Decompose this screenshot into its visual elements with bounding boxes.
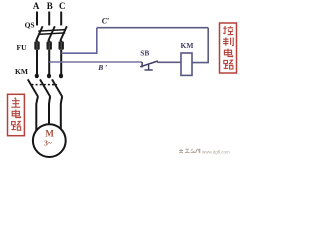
text 制: [223, 37, 233, 45]
switch QS link bar upper: [38, 30, 65, 32]
svg-text:QS: QS: [25, 20, 35, 29]
wire: pole B KM to motor: [49, 96, 50, 123]
motor M circle: [33, 124, 66, 157]
text 路 (upper): [11, 121, 20, 130]
wire: coil to right loop: [192, 62, 209, 64]
svg-text:B: B: [47, 1, 53, 11]
push button SB stem: [148, 65, 150, 70]
text 控: [223, 26, 233, 35]
svg-text:3~: 3~: [44, 138, 52, 147]
switch QS blade pole B: [48, 26, 55, 41]
contactor KM linkage dashed: [32, 84, 58, 86]
contactor KM contact dot pole B: [47, 74, 51, 79]
svg-text:A: A: [33, 1, 40, 11]
node B' branch wire (pole B to SB): [49, 61, 142, 63]
contactor KM contact dot pole C: [59, 74, 63, 79]
svg-text:M: M: [45, 128, 54, 138]
text 电: [12, 110, 20, 118]
wire: pole A FU to KM contact: [36, 50, 38, 75]
wire: phase A top stub: [36, 12, 38, 26]
control loop top wire: [97, 27, 208, 29]
svg-text:C: C: [59, 1, 66, 11]
fuse FU pole C: [59, 41, 64, 49]
wire: pole C between QS and FU: [60, 40, 62, 42]
svg-text:KM: KM: [181, 41, 194, 50]
contactor KM blade pole A: [28, 79, 38, 96]
contactor KM blade pole B: [40, 79, 50, 96]
text 路 (control): [224, 60, 233, 69]
wire: pole B FU to KM contact: [48, 50, 50, 75]
red box 主电路 (main circuit): [8, 94, 25, 135]
node C' branch wire (pole C to control loop): [61, 28, 97, 54]
switch QS blade pole A: [36, 26, 43, 41]
wire: phase B top stub: [48, 12, 50, 26]
fuse FU pole B: [47, 41, 52, 49]
svg-text:FU: FU: [17, 43, 28, 52]
wire: SB to coil: [157, 61, 181, 63]
control loop right wire: [207, 28, 209, 63]
svg-text:B ′: B ′: [97, 63, 107, 72]
wire: pole A KM to motor: [36, 96, 38, 130]
wire: pole C KM to motor: [61, 96, 62, 128]
red box 控制电路 (control circuit): [220, 23, 237, 73]
contactor KM blade pole C: [52, 79, 62, 96]
contactor KM contact dot pole A: [35, 74, 39, 79]
watermark 电工之友 | www: [179, 149, 200, 154]
coil KM rectangle: [181, 53, 192, 75]
svg-text:www.dgfl.com: www.dgfl.com: [202, 149, 230, 154]
push button SB bridge: [140, 61, 158, 67]
text 主: [11, 98, 20, 108]
wire: pole B between QS and FU: [48, 40, 50, 42]
text 电 (control): [224, 49, 232, 57]
svg-text:KM: KM: [15, 67, 28, 76]
switch QS blade pole C: [60, 26, 67, 41]
switch QS link bar lower: [38, 33, 65, 35]
wire: phase C top stub: [60, 12, 62, 26]
svg-text:C′: C′: [102, 17, 110, 26]
svg-text:SB: SB: [140, 49, 149, 58]
push button SB contact tick: [141, 62, 143, 67]
wire: pole C FU to KM contact: [60, 50, 62, 75]
fuse FU pole A: [34, 41, 39, 49]
wire: pole A between QS and FU: [36, 40, 38, 42]
push button SB T-bar: [145, 69, 153, 71]
